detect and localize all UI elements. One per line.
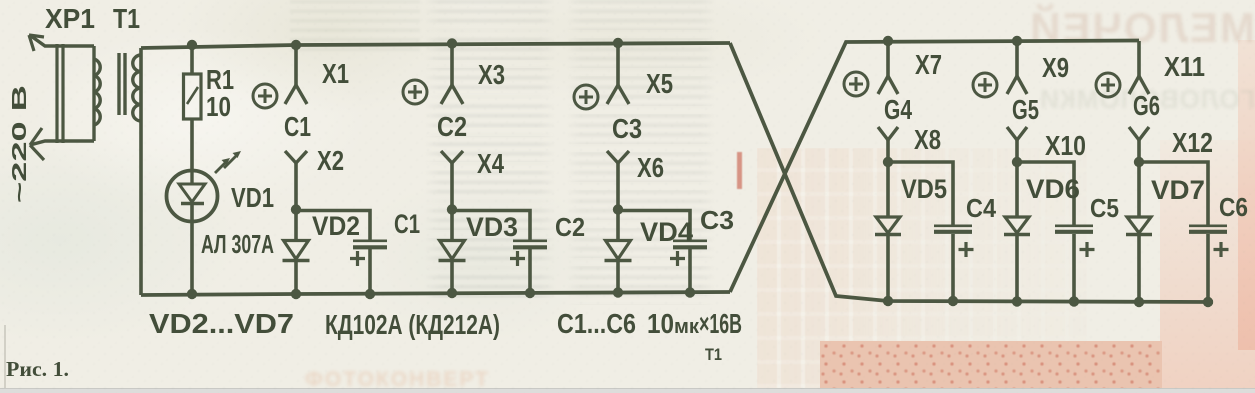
svg-text:X11: X11 — [1164, 51, 1205, 82]
svg-text:ХР1: ХР1 — [45, 3, 95, 34]
svg-text:~220 В: ~220 В — [9, 85, 31, 203]
svg-text:VD2: VD2 — [312, 211, 360, 241]
svg-text:C6: C6 — [1219, 192, 1248, 222]
svg-text:G6: G6 — [1133, 90, 1160, 121]
svg-text:Т1: Т1 — [705, 345, 722, 364]
svg-text:10мк×16В: 10мк×16В — [647, 308, 742, 339]
svg-text:C4: C4 — [966, 193, 996, 223]
svg-text:X3: X3 — [478, 59, 505, 90]
svg-text:VD4: VD4 — [640, 217, 693, 247]
svg-text:VD3: VD3 — [466, 212, 518, 242]
svg-text:КД102А (КД212А): КД102А (КД212А) — [325, 309, 500, 340]
svg-text:C3: C3 — [612, 113, 642, 144]
svg-text:X10: X10 — [1045, 130, 1086, 161]
svg-text:Рис. 1.: Рис. 1. — [6, 357, 69, 381]
svg-text:G4: G4 — [884, 94, 912, 125]
svg-text:C2: C2 — [437, 111, 467, 142]
svg-text:X7: X7 — [915, 49, 942, 80]
svg-text:C1: C1 — [284, 111, 311, 142]
svg-text:VD5: VD5 — [901, 174, 947, 204]
svg-text:C5: C5 — [1090, 193, 1119, 223]
svg-text:X1: X1 — [322, 58, 349, 89]
svg-text:С1...С6: С1...С6 — [557, 308, 636, 339]
svg-text:АЛ 307А: АЛ 307А — [201, 229, 274, 259]
svg-text:C2: C2 — [555, 212, 585, 242]
svg-text:X5: X5 — [646, 68, 673, 99]
svg-text:X4: X4 — [477, 148, 504, 179]
svg-text:Т1: Т1 — [113, 3, 140, 34]
svg-text:C1: C1 — [394, 209, 420, 239]
svg-text:C3: C3 — [700, 205, 734, 235]
svg-text:10: 10 — [206, 91, 231, 122]
svg-text:VD6: VD6 — [1026, 174, 1080, 204]
svg-text:VD7: VD7 — [1151, 175, 1205, 205]
svg-text:VD1: VD1 — [231, 182, 274, 213]
svg-text:VD2...VD7: VD2...VD7 — [149, 308, 294, 339]
svg-text:X9: X9 — [1042, 52, 1069, 83]
svg-text:X2: X2 — [317, 145, 344, 176]
svg-text:G5: G5 — [1012, 94, 1039, 125]
svg-text:X6: X6 — [637, 152, 664, 183]
svg-text:X8: X8 — [914, 124, 941, 155]
svg-text:X12: X12 — [1172, 127, 1213, 158]
